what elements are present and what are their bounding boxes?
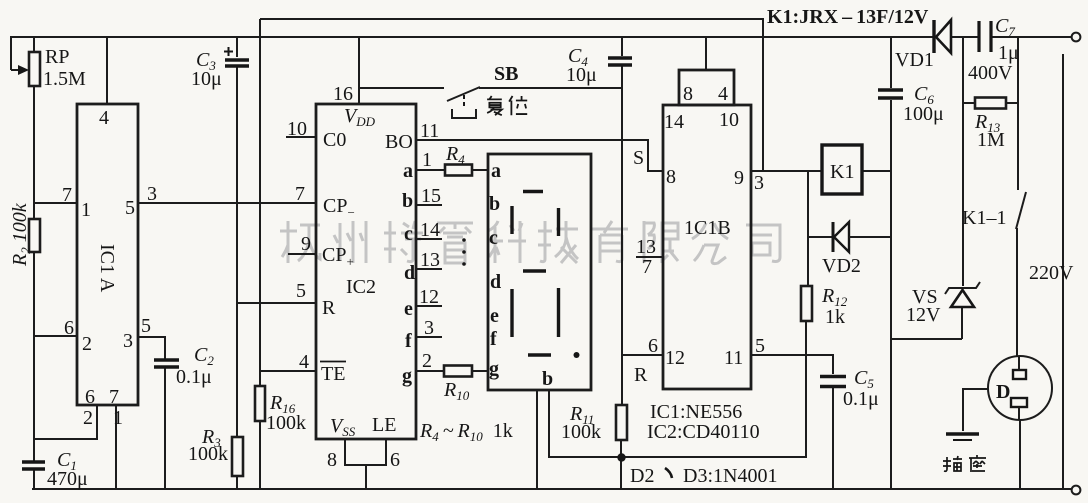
svg-text:R2 100k: R2 100k: [9, 202, 33, 267]
svg-text:16: 16: [333, 83, 353, 105]
potentiometer RP: [11, 46, 86, 90]
svg-text:9: 9: [734, 167, 744, 189]
svg-text:5: 5: [296, 280, 306, 302]
svg-text:LE: LE: [372, 414, 396, 436]
svg-text:1.5M: 1.5M: [43, 68, 86, 90]
svg-text:D3:1N4001: D3:1N4001: [683, 465, 777, 487]
display segment upper-right: [557, 208, 560, 236]
wire IC1A pin2 stub to C1: [34, 405, 97, 439]
wire IC1A pin4 drop: [106, 37, 108, 104]
svg-text:VD1: VD1: [895, 49, 934, 71]
svg-text:14: 14: [664, 111, 684, 133]
wire IC2 TE pin from R16 line: [260, 370, 316, 372]
pin 6/12 R input: [634, 335, 685, 386]
svg-text:1: 1: [81, 199, 91, 221]
op-amp IC1A box: [62, 104, 157, 429]
wire socket to ground: [1019, 420, 1021, 489]
zener diode VS 12V: [906, 282, 980, 326]
diode VD2: [808, 222, 891, 277]
svg-text:VD2: VD2: [822, 255, 861, 277]
svg-text:5: 5: [141, 315, 151, 337]
svg-text:1μ: 1μ: [998, 42, 1019, 64]
svg-text:4: 4: [718, 83, 728, 105]
svg-text:12: 12: [419, 286, 439, 308]
socket 插座 circle: [988, 356, 1052, 420]
pin 9 output: [734, 167, 764, 194]
svg-text:2: 2: [83, 407, 93, 429]
label 插座 socket: [943, 455, 986, 472]
wire IC1A pin1 to ground: [115, 405, 117, 489]
svg-text:R: R: [322, 297, 336, 319]
svg-text:d: d: [490, 271, 501, 293]
svg-text:b: b: [402, 190, 413, 212]
node output terminal bottom right: [1072, 486, 1081, 495]
display segment lower-right: [557, 288, 560, 337]
node output terminal top right: [1072, 33, 1081, 42]
svg-text:12V: 12V: [906, 304, 941, 326]
op-amp IC1B box: [663, 37, 751, 389]
diode VD1: [895, 20, 951, 71]
svg-text:f: f: [405, 330, 412, 352]
svg-text:6: 6: [648, 335, 658, 357]
wire reset vertical C4/R11: [621, 37, 622, 489]
svg-text:c: c: [489, 227, 498, 249]
svg-text:b: b: [542, 368, 553, 390]
svg-text:a: a: [491, 160, 501, 182]
svg-text:BO: BO: [385, 131, 413, 153]
pin 11 BO: [385, 120, 439, 153]
svg-text:a: a: [403, 160, 413, 182]
svg-text:11: 11: [420, 120, 439, 142]
svg-text:1: 1: [422, 149, 432, 171]
switch K1-1: [962, 192, 1026, 229]
pin 12 e stub: [404, 286, 442, 320]
svg-text:7: 7: [62, 184, 72, 206]
watermark 杭州将睿科技有限公司: [280, 221, 780, 264]
svg-text:10μ: 10μ: [191, 68, 222, 90]
svg-text:220V: 220V: [1029, 262, 1074, 284]
svg-text:C0: C0: [323, 129, 346, 151]
svg-text:S: S: [633, 147, 644, 169]
svg-text:IC1:NE556: IC1:NE556: [650, 401, 742, 423]
display segment upper-left: [510, 206, 513, 234]
svg-text:e: e: [490, 305, 499, 327]
svg-text:RP: RP: [45, 46, 69, 68]
resistor R12: [801, 285, 848, 328]
wire SB reset line: [359, 87, 622, 89]
ground earth symbol: [946, 434, 979, 440]
svg-text:9: 9: [301, 233, 311, 255]
svg-text:7: 7: [642, 256, 652, 278]
resistor R3: [188, 426, 243, 476]
svg-text:0.1μ: 0.1μ: [843, 388, 879, 410]
capacitor C1: [22, 449, 88, 490]
wire IC2 pin16 drop: [358, 37, 360, 104]
svg-text:7: 7: [295, 183, 305, 205]
svg-text:8: 8: [683, 83, 693, 105]
pin 8 VSS stub: [327, 415, 386, 489]
svg-text:5: 5: [755, 335, 765, 357]
pin 10 C0 stub: [286, 118, 346, 151]
svg-text:8: 8: [666, 166, 676, 188]
svg-text:D: D: [996, 381, 1010, 403]
svg-text:3: 3: [123, 330, 133, 352]
pin 15 b stub: [402, 185, 442, 212]
svg-text:g: g: [402, 365, 412, 387]
pin 8 S input: [633, 147, 676, 188]
pin 1 a and resistor R4: [403, 143, 488, 182]
wire display b to R11 node: [549, 321, 806, 457]
wire 220V right line: [1062, 54, 1064, 489]
display segment lower-left: [510, 289, 513, 337]
wire IC1A pin7 link: [34, 202, 77, 204]
svg-text:3: 3: [147, 183, 157, 205]
capacitor C4: [566, 45, 632, 86]
svg-text:13: 13: [420, 249, 440, 271]
svg-text:7: 7: [109, 386, 119, 408]
wire K1 branch down: [807, 171, 809, 286]
label 复位 reset: [487, 96, 527, 115]
wire bottom ground rail: [32, 488, 1071, 490]
wire left vertical RP/R2 branch: [33, 37, 35, 489]
wire C5 to ground: [832, 388, 834, 489]
svg-text:3: 3: [424, 317, 434, 339]
svg-text:100k: 100k: [561, 421, 601, 443]
svg-text:IC2: IC2: [346, 276, 376, 298]
svg-text:2: 2: [422, 350, 432, 372]
display segment bottom: [528, 353, 551, 356]
svg-text:SB: SB: [494, 63, 518, 85]
IC U2 CD40110 box: [316, 83, 416, 439]
wire zener branch vertical: [962, 37, 963, 339]
svg-text:12: 12: [665, 347, 685, 369]
svg-text:K1–1: K1–1: [962, 207, 1006, 229]
pin 3 f stub: [405, 317, 442, 352]
svg-text:11: 11: [724, 347, 743, 369]
svg-text:100k: 100k: [266, 412, 306, 434]
display decimal point: [574, 352, 580, 358]
svg-text:2: 2: [82, 333, 92, 355]
pin 13/7 stub label: [636, 236, 663, 278]
wire IC2 R pin from C3 line: [237, 302, 316, 304]
wire IC1A pin5 to C2: [138, 337, 165, 359]
display segment middle: [523, 269, 546, 272]
svg-text:IC1 A: IC1 A: [96, 244, 118, 293]
svg-text:13: 13: [636, 236, 656, 258]
wire IC1B R pin link: [621, 354, 663, 356]
svg-text:0.1μ: 0.1μ: [176, 366, 212, 388]
svg-text:10μ: 10μ: [566, 64, 597, 86]
svg-text:6: 6: [64, 317, 74, 339]
svg-text:6: 6: [390, 449, 400, 471]
wire BO to S: [416, 140, 663, 171]
pin 4 TE: [299, 351, 346, 385]
display 7-segment box: [488, 154, 591, 390]
svg-text:5: 5: [125, 197, 135, 219]
switch SB reset button: [447, 63, 518, 118]
svg-text:d: d: [404, 262, 415, 284]
svg-text:8: 8: [327, 449, 337, 471]
svg-text:b: b: [489, 193, 500, 215]
svg-text:1M: 1M: [977, 129, 1005, 151]
resistor R13: [963, 98, 1018, 152]
pin 11/5 output: [724, 335, 765, 369]
wire IC1A pin6 link: [34, 335, 77, 337]
svg-text:R: R: [634, 364, 648, 386]
svg-text:IC2:CD40110: IC2:CD40110: [647, 421, 760, 443]
node junction R11 bottom: [617, 453, 625, 461]
svg-text:TE: TE: [321, 363, 345, 385]
svg-text:10: 10: [719, 109, 739, 131]
svg-text:c: c: [404, 223, 413, 245]
wire K1-1 switch line: [1017, 103, 1018, 356]
svg-text:15: 15: [421, 185, 441, 207]
wire K1 right to 12V line: [862, 170, 891, 172]
svg-text:K1: K1: [830, 161, 854, 183]
pin 9 CP+ stub: [288, 233, 354, 269]
svg-text:e: e: [404, 298, 413, 320]
svg-text:D2: D2: [630, 465, 654, 487]
wire top +12V rail: [11, 37, 1071, 70]
node ellipsis R5-R9: [462, 238, 466, 266]
pin 2 g and resistor R10: [402, 350, 488, 403]
wire display b to ground: [536, 390, 538, 489]
resistor R2: [9, 202, 40, 267]
svg-text:K1:JRX – 13F/12V: K1:JRX – 13F/12V: [767, 6, 929, 28]
wire socket earth: [963, 389, 988, 431]
svg-text:4: 4: [299, 351, 309, 373]
resistor R11: [561, 403, 627, 443]
svg-text:3: 3: [754, 172, 764, 194]
wire C3/R3 vertical: [236, 37, 238, 489]
wire C2 to ground: [164, 368, 166, 489]
svg-text:400V: 400V: [968, 62, 1013, 84]
resistor R16: [255, 386, 306, 434]
relay K1 coil box: [822, 145, 862, 194]
wire reset frame top: [260, 19, 763, 489]
svg-text:470μ: 470μ: [47, 468, 88, 490]
svg-text:4: 4: [99, 107, 109, 129]
wire C7 right node vertical: [1017, 37, 1019, 103]
capacitor C3: [191, 47, 249, 90]
svg-text:100k: 100k: [188, 443, 228, 465]
wire IC1B pin9 to K1: [751, 170, 822, 172]
svg-text:1k: 1k: [825, 306, 845, 328]
wire IC1B pin11 to C5: [751, 355, 833, 374]
capacitor C7: [968, 15, 1019, 84]
svg-text:1C1B: 1C1B: [684, 217, 731, 239]
capacitor C2: [154, 344, 214, 388]
pin 13 d stub: [404, 249, 442, 284]
wire IC1A pin3 to IC2 CP-: [138, 202, 316, 204]
pin 6 LE stub: [372, 414, 400, 471]
svg-text:g: g: [489, 358, 499, 380]
svg-text:14: 14: [420, 219, 440, 241]
svg-text:6: 6: [85, 386, 95, 408]
pin 14 c stub: [404, 219, 442, 245]
display segment a: [523, 190, 543, 193]
svg-text:1: 1: [113, 407, 123, 429]
capacitor C6: [878, 83, 944, 125]
svg-text:10: 10: [287, 118, 307, 140]
svg-text:100μ: 100μ: [903, 103, 944, 125]
capacitor C5: [820, 367, 879, 410]
wire 12V vertical C6 line: [891, 37, 962, 489]
pin 7 CP-: [295, 183, 355, 220]
svg-text:f: f: [490, 328, 497, 350]
pin 5 R: [296, 280, 336, 319]
